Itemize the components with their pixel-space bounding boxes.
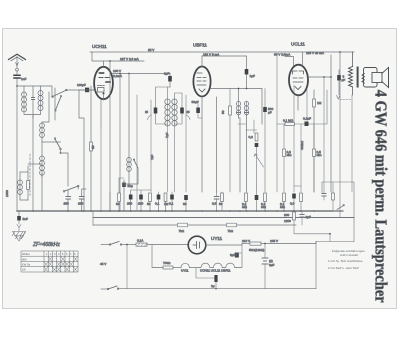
svg-text:UCH11 UCL11 UBF11: UCH11 UCL11 UBF11 (200, 269, 231, 273)
svg-text:MW: MW (22, 257, 27, 261)
svg-text:0,5: 0,5 (290, 202, 295, 206)
svg-text:7kΩ: 7kΩ (228, 229, 234, 233)
fuse 0.1A (136, 243, 147, 246)
resistor 0.3M vert (283, 149, 286, 157)
note text block (328, 249, 365, 270)
node A antenna junction (16, 85, 18, 87)
volume pot (255, 133, 258, 141)
capacitor 0.1c (214, 197, 219, 200)
svg-text:12345678: 12345678 (46, 252, 78, 256)
wire UCH11 anode to IF1 (112, 73, 170, 75)
capacitor 0.5 dark (292, 194, 296, 199)
resistor 1M (164, 193, 167, 202)
resistor row mid (149, 193, 152, 202)
svg-text:105 V: 105 V (270, 239, 279, 243)
resistor before T3 (229, 89, 231, 193)
svg-text:7kΩ: 7kΩ (179, 229, 185, 233)
svg-text:1000: 1000 (5, 190, 9, 197)
svg-text:250: 250 (78, 202, 83, 206)
resistor 7k b (227, 223, 237, 227)
svg-text:4 GW 646 mit perm. Lautspreche: 4 GW 646 mit perm. Lautsprecher (371, 90, 389, 303)
svg-text:250: 250 (138, 202, 143, 206)
svg-text:ZF=468kHz: ZF=468kHz (32, 242, 60, 248)
ground (12, 228, 25, 239)
svg-text:MΩ: MΩ (287, 153, 293, 157)
wire B+ (242, 243, 250, 245)
svg-text:50µF: 50µF (192, 100, 199, 104)
svg-text:0,5: 0,5 (212, 202, 217, 206)
component row: resistor 50k (118, 193, 121, 202)
svg-text:0,1: 0,1 (155, 202, 160, 206)
resistor 50ohm (250, 242, 261, 245)
tube UCH11 (92, 44, 113, 100)
svg-text:UY11: UY11 (211, 236, 223, 241)
wire UBF plate out (211, 89, 263, 193)
resistor 700ohm heater (163, 266, 173, 269)
resistor 7k a (178, 223, 188, 227)
svg-text:pF: pF (268, 111, 272, 115)
capacitor 5nF anode (337, 75, 341, 81)
svg-text:0,2mA: 0,2mA (113, 74, 123, 78)
svg-text:UCL11: UCL11 (291, 42, 305, 47)
capacitor 2uF right (300, 215, 304, 218)
speaker LS (362, 68, 389, 88)
svg-text:100 V: 100 V (113, 69, 122, 73)
junction dots on ground bus (32, 210, 315, 212)
svg-text:Folgende Ausführungen: Folgende Ausführungen (332, 249, 365, 253)
capacitor 8uF b electro (262, 258, 268, 264)
wire L2 top to switch (54, 88, 56, 120)
switch in box (337, 206, 344, 210)
capacitor coupling det (305, 122, 309, 127)
svg-text:1M: 1M (164, 202, 169, 206)
svg-text:sind im Handel:: sind im Handel: (340, 253, 359, 257)
ground bus main (17, 210, 332, 212)
switch S1b (55, 139, 60, 148)
resistor R osc (27, 181, 30, 190)
svg-text:µF: µF (342, 78, 346, 82)
svg-text:250: 250 (127, 202, 132, 206)
svg-text:187 V 2,3 mA: 187 V 2,3 mA (120, 57, 140, 61)
resistor 0.1M row (245, 193, 248, 202)
wire coil bottoms (24, 113, 41, 118)
vertical wires mid (151, 95, 186, 192)
capacitor 50u dark (255, 195, 259, 200)
antenna (9, 54, 26, 61)
svg-text:1nF: 1nF (21, 77, 26, 81)
wire screen UCH11 (79, 90, 95, 211)
capacitor 0.1b (170, 195, 174, 200)
capacitor 250pF a (66, 197, 71, 200)
svg-text:95 V 9,5mA: 95 V 9,5mA (274, 53, 291, 57)
svg-text:8µF: 8µF (230, 253, 236, 257)
alignment table (21, 251, 78, 272)
wire bottom right (316, 241, 354, 243)
svg-text:50: 50 (147, 202, 151, 206)
resistor UCL grid leak (313, 99, 316, 107)
svg-text:85 V: 85 V (148, 48, 155, 52)
svg-text:50: 50 (219, 202, 223, 206)
wire mains top (101, 244, 110, 246)
wire oscillator section (28, 163, 42, 165)
svg-text:LW: LW (22, 268, 26, 272)
svg-text:50Ω(120Ω): 50Ω(120Ω) (249, 248, 264, 252)
IF transformer T3 (236, 89, 248, 193)
resistor 0.3M (221, 193, 224, 202)
heater bumps UCH UCL UBF (199, 263, 237, 267)
svg-text:45 V: 45 V (100, 262, 107, 266)
svg-text:700Ω: 700Ω (163, 261, 171, 265)
svg-text:2 mit Tarif u. oder Tarif: 2 mit Tarif u. oder Tarif (328, 266, 359, 270)
wire anode rail UCH11 (92, 52, 144, 61)
resistor 200/1200 (293, 212, 296, 220)
svg-text:KW·Sp: KW·Sp (22, 263, 31, 267)
svg-text:Wellen: Wellen (22, 252, 30, 256)
svg-text:1 mit 7µ, 5nF anschlüsse: 1 mit 7µ, 5nF anschlüsse (328, 259, 363, 263)
svg-text:1200: 1200 (284, 219, 291, 223)
svg-text:55: 55 (91, 145, 95, 149)
svg-text:8µF: 8µF (269, 263, 275, 267)
svg-text:100pF: 100pF (77, 83, 86, 87)
coil L6 mid (127, 158, 132, 163)
svg-text:50: 50 (116, 202, 120, 206)
capacitor dark (184, 195, 188, 200)
coil L3 oscillator (40, 123, 45, 128)
capacitor 500pF (264, 89, 266, 193)
svg-text:0,1µF: 0,1µF (303, 117, 311, 121)
coil L1 (22, 92, 27, 97)
svg-text:5nF: 5nF (23, 217, 28, 221)
svg-text:200: 200 (284, 213, 289, 217)
svg-text:1µ: 1µ (211, 284, 215, 288)
resistor end row (300, 193, 303, 202)
vertical wires mid left (101, 95, 137, 211)
svg-text:250: 250 (64, 202, 69, 206)
capacitor 8uF a (235, 253, 239, 258)
wire UCL anode out (307, 55, 331, 192)
svg-text:MΩ: MΩ (317, 153, 323, 157)
capacitor 250pF b (80, 197, 85, 200)
svg-text:7µF: 7µF (165, 132, 169, 138)
trimmer cap between coils (32, 98, 35, 100)
svg-text:50: 50 (183, 202, 187, 206)
svg-text:0,1: 0,1 (169, 202, 174, 206)
capacitor 100pF (85, 88, 89, 93)
IF transformer T2 (145, 87, 190, 192)
wire mains bottom (101, 288, 108, 290)
svg-text:50: 50 (221, 110, 225, 114)
output transformer T4 (349, 52, 359, 95)
capacitor C1 1nF (14, 75, 20, 78)
svg-text:50µ: 50µ (128, 184, 133, 188)
resistor 0.2M row (264, 193, 267, 202)
svg-text:185 V 28 mA: 185 V 28 mA (306, 51, 325, 55)
wire antenna bus to ground bus (16, 86, 18, 211)
heater UY11 bump (180, 263, 190, 267)
svg-text:25: 25 (187, 110, 190, 114)
svg-text:0,1 MΩ: 0,1 MΩ (283, 119, 294, 123)
switch mains a (110, 242, 119, 245)
capacitor cap UBF (245, 69, 249, 75)
switch S1a (53, 90, 67, 96)
svg-text:7µF: 7µF (150, 154, 154, 160)
svg-text:0,2: 0,2 (249, 135, 254, 139)
svg-text:1M: 1M (317, 101, 322, 105)
switch S1d (134, 160, 138, 168)
capacitor 0.1 (157, 195, 161, 200)
resistor 0.5M vert (313, 149, 316, 157)
coil L2 (38, 91, 43, 96)
wire grid line to UCH11 (17, 86, 95, 97)
resistor 0.1M left (90, 142, 93, 151)
svg-text:UY11: UY11 (181, 269, 189, 273)
wire det out (238, 124, 257, 130)
heater tap (196, 268, 216, 279)
resistor 0.1M row2 (283, 193, 286, 202)
right block box (322, 182, 354, 242)
coil L5 (18, 180, 23, 185)
svg-text:0,1A: 0,1A (137, 239, 144, 243)
vertical wires right (254, 56, 307, 192)
dashed link (29, 154, 31, 196)
tube UCL11 (285, 42, 308, 111)
svg-text:2µF: 2µF (164, 72, 170, 76)
bus 2 (93, 217, 354, 219)
svg-text:2µF: 2µF (306, 215, 312, 219)
switch S1b upper (56, 97, 62, 111)
capacitor 5nF to ground (18, 211, 20, 216)
svg-text:1µF: 1µF (250, 74, 256, 78)
wire HT supply top rail (90, 51, 354, 53)
resistor in box (332, 193, 335, 200)
capacitor in box (322, 194, 326, 197)
tube UY11 (188, 236, 222, 254)
svg-text:UBF11: UBF11 (193, 43, 207, 48)
capacitor 250u (129, 195, 133, 200)
tube UBF11 (193, 43, 211, 193)
node B (60, 152, 62, 154)
detector chain: resistor 0.1M horizontal (285, 123, 295, 126)
coil L4 oscillator 2 (40, 156, 45, 161)
svg-text:UCH11: UCH11 (92, 44, 107, 49)
switch S1c (65, 186, 78, 191)
bus 3 (93, 224, 296, 226)
svg-text:25: 25 (145, 110, 148, 114)
wire grid2 verticals (101, 61, 120, 211)
capacitor 250p (139, 195, 143, 200)
svg-text:462kΩ: 462kΩ (300, 140, 304, 150)
